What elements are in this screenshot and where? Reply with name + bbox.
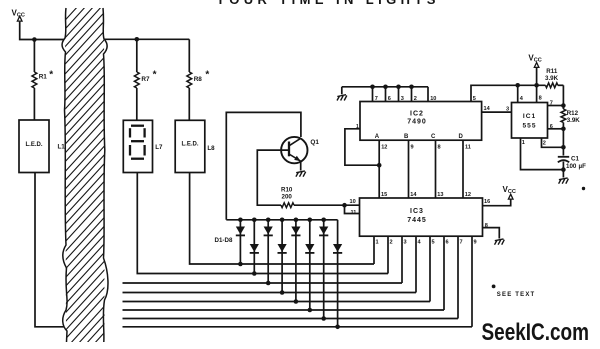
ground IC3 pin 8 <box>495 239 505 245</box>
svg-text:*: * <box>205 70 209 81</box>
wire IC3 pin riser 6 <box>443 236 445 310</box>
svg-text:7: 7 <box>460 240 463 246</box>
IC U1 (IC1 555) <box>512 103 548 139</box>
svg-text:L7: L7 <box>155 144 163 151</box>
node junction R7 on rail <box>135 37 140 42</box>
IC U3 (IC3 7445) <box>360 198 483 236</box>
node D3 cathode junction <box>266 281 271 286</box>
svg-text:7: 7 <box>550 100 553 106</box>
svg-text:9: 9 <box>411 145 414 151</box>
svg-text:Q1: Q1 <box>310 139 319 146</box>
IC U2 (IC2 7490) <box>360 102 482 141</box>
wire L7 to line2 <box>137 173 255 274</box>
wire bus line 3 <box>123 282 403 284</box>
wire bus line 1 right part <box>240 263 374 265</box>
wire IC2-IC3 link 0 <box>378 140 380 198</box>
svg-text:L8: L8 <box>207 145 215 152</box>
svg-text:6: 6 <box>446 240 449 246</box>
ground C1 <box>559 178 569 184</box>
wire IC2 pin 6 stub <box>385 87 387 102</box>
svg-text:16: 16 <box>484 199 490 205</box>
svg-text:5: 5 <box>473 96 476 102</box>
wire bus line 8 <box>123 326 473 328</box>
svg-text:8: 8 <box>438 145 441 151</box>
svg-text:11: 11 <box>465 145 471 151</box>
node rail junction pin 2 <box>561 145 566 150</box>
wire IC3 pin 11 link <box>345 205 360 213</box>
wire IC2 pin 5 riser <box>471 85 546 101</box>
note SEE TEXT <box>492 285 536 299</box>
node bus junction D4 <box>280 218 285 223</box>
wire IC1 pin 4 riser <box>517 85 519 102</box>
wire L8 to line1 <box>190 173 241 265</box>
node rail junction pin 3 <box>396 85 401 90</box>
svg-text:IC1: IC1 <box>523 113 536 120</box>
svg-text:*: * <box>153 70 157 81</box>
svg-text:1: 1 <box>376 240 379 246</box>
svg-text:R1: R1 <box>39 74 48 81</box>
svg-text:3.9K: 3.9K <box>567 117 581 124</box>
power Vcc (IC1) <box>528 54 541 68</box>
svg-text:555: 555 <box>522 123 536 130</box>
node rail junction pin 6 <box>383 85 388 90</box>
resistor R11 <box>545 68 563 88</box>
diode D3 <box>264 220 273 283</box>
svg-text:12: 12 <box>465 192 471 198</box>
svg-text:10: 10 <box>430 96 436 102</box>
node D6 cathode junction <box>308 308 313 313</box>
diode D1 <box>236 220 245 264</box>
svg-text:R8: R8 <box>194 76 203 83</box>
node junction IC2 pin1-pin12 <box>377 163 382 168</box>
wire bus line 4 <box>123 292 417 294</box>
svg-text:R10: R10 <box>281 187 293 194</box>
diode D6 <box>305 220 314 310</box>
transistor Q1 <box>281 137 319 163</box>
wire Q1 collector loop <box>226 112 301 219</box>
wire IC2 pin 10 stub <box>427 87 429 102</box>
svg-text:R11: R11 <box>546 68 558 75</box>
wire bus line 6 <box>123 309 445 311</box>
wire diode anode bus <box>226 219 337 221</box>
wire IC2 top ground rail <box>342 86 428 88</box>
wire IC3 pin riser 1 <box>373 236 375 264</box>
svg-text:L.E.D.: L.E.D. <box>181 141 198 147</box>
node rail junction pin 4 <box>515 83 520 88</box>
svg-text:14: 14 <box>410 192 417 198</box>
node junction R1/Vcc rail <box>32 37 37 42</box>
node rail junction pin 7 <box>561 103 566 108</box>
L.E.D. L1 <box>19 120 65 173</box>
wire IC1 pin 7 stub <box>548 105 564 107</box>
svg-text:7490: 7490 <box>407 119 427 126</box>
svg-text:L1: L1 <box>58 144 66 151</box>
svg-text:R7: R7 <box>141 76 150 83</box>
node rail junction pin 1 <box>561 167 566 172</box>
wire IC1 pin 2 link <box>542 138 564 147</box>
svg-text:IC2: IC2 <box>410 111 424 118</box>
node bus junction D2 <box>252 218 257 223</box>
svg-text:D1-D8: D1-D8 <box>215 237 233 244</box>
resistor R8 <box>187 39 210 120</box>
wire IC1 pin 6 stub <box>548 128 564 130</box>
svg-text:SeekIC.com: SeekIC.com <box>482 319 590 346</box>
wire IC2 pin14 to IC1 pin3 <box>482 111 512 113</box>
wire bus line 5 <box>123 301 431 303</box>
node D4 cathode junction <box>280 290 285 295</box>
svg-text:7445: 7445 <box>407 217 427 224</box>
node junction pins 10-11 <box>342 203 347 208</box>
svg-text:C: C <box>431 134 436 140</box>
svg-text:3: 3 <box>404 240 407 246</box>
wire Q1 base <box>257 150 289 205</box>
svg-text:2: 2 <box>414 96 417 102</box>
stray print dot <box>582 187 585 190</box>
svg-text:8: 8 <box>539 96 542 102</box>
node rail junction pin 7 <box>370 85 375 90</box>
wire IC2-IC3 link 3 <box>462 140 464 198</box>
wire IC2 pin 2 stub <box>411 87 413 102</box>
ground Q1 emitter <box>296 171 306 177</box>
node D5 cathode junction <box>294 299 299 304</box>
wire R10 to IC3 pin10 <box>294 204 360 206</box>
svg-text:5: 5 <box>432 240 435 246</box>
svg-text:8: 8 <box>485 223 488 229</box>
display L7 (7-segment) <box>123 120 163 172</box>
svg-text:14: 14 <box>484 106 491 112</box>
node D2 cathode junction <box>252 271 257 276</box>
wire IC2 pin 3 stub <box>398 87 400 102</box>
capacitor C1 <box>558 156 586 171</box>
power Vcc (IC3) <box>503 185 516 199</box>
wire IC2 pin 7 stub <box>372 87 374 102</box>
diode D5 <box>291 220 300 302</box>
wire top rail right of band <box>105 38 190 40</box>
title remnant (clipped) <box>216 0 440 7</box>
diode D8 <box>333 220 342 327</box>
wire IC3 pin 8 to ground <box>483 228 500 239</box>
wire IC3 pin riser 5 <box>429 236 431 301</box>
wire IC1 pin 8 riser <box>536 85 538 102</box>
svg-text:3: 3 <box>401 96 404 102</box>
svg-text:µF: µF <box>579 163 587 170</box>
svg-text:3.9K: 3.9K <box>545 75 559 82</box>
resistor R12 <box>561 109 580 124</box>
wire Vcc stem IC1 <box>536 68 538 85</box>
svg-text:2: 2 <box>390 240 393 246</box>
wire IC3 pin riser 2 <box>387 236 389 273</box>
wire Q1 emitter to ground <box>300 161 302 170</box>
wire bus line 2 right part <box>254 273 388 275</box>
power Vcc (top left) <box>12 9 25 22</box>
diode D4 <box>278 220 287 293</box>
svg-text:B: B <box>404 134 409 140</box>
svg-text:12: 12 <box>381 145 387 151</box>
node bus junction D7 <box>321 218 326 223</box>
wire IC3 pin riser 8 <box>471 236 473 327</box>
diode D2 <box>250 220 259 274</box>
svg-text:11: 11 <box>351 210 357 216</box>
node bus junction D6 <box>308 218 313 223</box>
L.E.D. L8 <box>175 120 215 172</box>
svg-text:1: 1 <box>356 124 359 130</box>
wire rail below R12 <box>562 123 564 156</box>
svg-text:L.E.D.: L.E.D. <box>25 142 42 148</box>
svg-text:6: 6 <box>388 96 391 102</box>
wire IC2-IC3 link 1 <box>408 140 410 198</box>
wire IC1 pin 1 link <box>521 138 564 170</box>
wire ground stem IC2 <box>341 87 343 95</box>
svg-text:D: D <box>459 134 464 140</box>
node D8 cathode junction <box>335 325 340 330</box>
svg-text:3: 3 <box>506 107 509 113</box>
svg-text:R12: R12 <box>567 110 579 117</box>
hatched omitted-section band <box>0 5 411 345</box>
node bus junction D3 <box>266 218 271 223</box>
wire IC3 pin riser 4 <box>415 236 417 292</box>
svg-text:200: 200 <box>282 194 293 201</box>
svg-text:*: * <box>49 70 53 81</box>
svg-text:15: 15 <box>381 192 387 198</box>
resistor R10 <box>281 187 294 208</box>
node rail junction pin 2 <box>409 85 414 90</box>
svg-text:6: 6 <box>550 124 553 130</box>
svg-text:IC3: IC3 <box>410 208 424 215</box>
wire IC3 pin riser 3 <box>401 236 403 283</box>
wire bus line 7 <box>123 318 459 320</box>
svg-text:7: 7 <box>375 96 378 102</box>
node D1 cathode junction <box>238 262 243 267</box>
wire IC3 pin 16 to Vcc <box>483 200 511 206</box>
wire IC3 pin riser 7 <box>457 236 459 318</box>
node bus junction D5 <box>294 218 299 223</box>
svg-text:SEE TEXT: SEE TEXT <box>497 292 536 298</box>
wire IC2 pin 1 loop <box>345 129 379 165</box>
svg-text:10: 10 <box>350 199 356 205</box>
svg-text:A: A <box>375 134 380 140</box>
svg-text:C1: C1 <box>571 156 579 163</box>
wire rail C1 to ground <box>562 162 564 178</box>
wire IC2-IC3 link 2 <box>435 140 437 198</box>
resistor R1 <box>32 40 53 121</box>
svg-text:2: 2 <box>543 140 546 146</box>
node D7 cathode junction <box>321 316 326 321</box>
diode D7 <box>319 220 328 319</box>
wire L1 to line8 <box>35 173 65 327</box>
svg-text:1: 1 <box>522 140 525 146</box>
resistor R7 <box>134 39 156 120</box>
node rail junction pin 8 <box>534 83 539 88</box>
node rail junction pin 6 <box>561 127 566 132</box>
svg-text:100: 100 <box>566 163 577 170</box>
ground IC2 <box>337 95 347 101</box>
wire right rail <box>562 85 564 109</box>
node bus junction D1 <box>238 218 243 223</box>
wire Vcc to rail <box>20 22 64 40</box>
svg-text:13: 13 <box>437 192 443 198</box>
svg-text:9: 9 <box>474 240 477 246</box>
